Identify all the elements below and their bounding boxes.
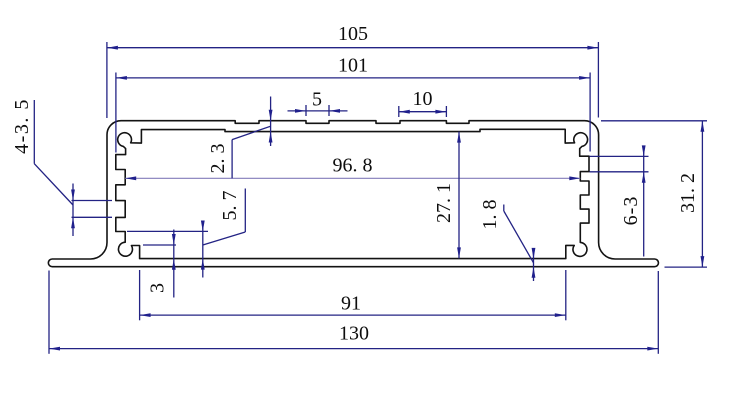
svg-text:96. 8: 96. 8 bbox=[333, 155, 373, 177]
svg-text:10: 10 bbox=[413, 88, 433, 110]
dimension 4-3.5 (left wall teeth) with leader bbox=[11, 98, 112, 236]
dimension 6-3 (right wall grooves) bbox=[590, 145, 649, 256]
svg-text:6-3: 6-3 bbox=[620, 196, 642, 226]
dimension 31.2 (overall height) bbox=[601, 121, 707, 267]
svg-text:3: 3 bbox=[147, 283, 169, 293]
svg-text:105: 105 bbox=[338, 23, 368, 45]
svg-text:91: 91 bbox=[341, 293, 361, 315]
svg-text:5. 7: 5. 7 bbox=[219, 191, 241, 221]
svg-text:27. 1: 27. 1 bbox=[433, 183, 455, 223]
dimension 91 bbox=[140, 270, 566, 320]
svg-text:4-3. 5: 4-3. 5 bbox=[11, 98, 33, 154]
dimension 96.8 (inner width) bbox=[125, 155, 580, 181]
dimension 130 bbox=[49, 271, 658, 354]
svg-text:31. 2: 31. 2 bbox=[677, 173, 699, 213]
dimension 1.8 (plate thickness) with leader bbox=[479, 200, 535, 282]
dimension 10 (top land) bbox=[399, 88, 447, 117]
profile inner cavity outline bbox=[116, 129, 589, 258]
dimension 5.7 with leader bbox=[127, 189, 245, 278]
dimension 2.3 (top wall thickness) with leader bbox=[207, 97, 273, 179]
dimension 105 bbox=[107, 23, 599, 118]
dimension 101 bbox=[116, 55, 590, 153]
dimension 5 (top notch) bbox=[288, 89, 348, 117]
svg-text:1. 8: 1. 8 bbox=[479, 200, 501, 230]
svg-text:5: 5 bbox=[312, 89, 322, 111]
profile outer outline bbox=[48, 121, 658, 267]
svg-text:2. 3: 2. 3 bbox=[207, 144, 229, 174]
dimension 3 (ledge height) bbox=[143, 230, 176, 298]
svg-text:101: 101 bbox=[338, 55, 368, 77]
svg-text:130: 130 bbox=[339, 323, 369, 345]
dimension 27.1 (inner height) bbox=[433, 132, 461, 259]
